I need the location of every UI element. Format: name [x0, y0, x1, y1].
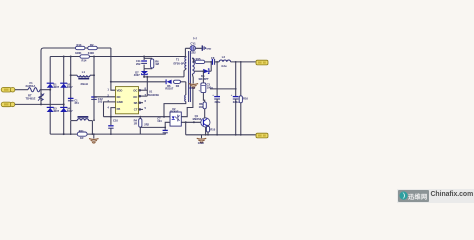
svg-text:GND: GND [198, 141, 204, 145]
wire clamp node [143, 75, 145, 77]
svg-text:2R2: 2R2 [144, 123, 149, 127]
diode D7 [141, 71, 148, 74]
svg-text:340K: 340K [88, 51, 94, 55]
resistor R10 [206, 124, 209, 127]
transformer secondary winding [192, 58, 194, 74]
resistor R4 [139, 119, 142, 128]
svg-text:T1: T1 [176, 58, 180, 62]
wire [140, 126, 165, 128]
wire bridge column B [63, 57, 65, 135]
svg-text:470u: 470u [214, 100, 220, 104]
resistor R8 [203, 102, 206, 109]
capacitor C10 [108, 125, 113, 127]
svg-text:R10: R10 [210, 128, 215, 132]
capacitor C11 [141, 60, 147, 62]
svg-text:20mH: 20mH [81, 82, 88, 86]
connector J1 (AC line input) [1, 87, 12, 92]
ground GND secondary [201, 135, 203, 138]
wire [15, 89, 28, 91]
svg-text:RS107: RS107 [165, 87, 173, 91]
wire [205, 61, 212, 63]
svg-text:4007: 4007 [53, 85, 59, 89]
capacitor C3 [201, 83, 206, 93]
transformer aux winding [185, 95, 186, 101]
wire [15, 103, 64, 105]
wire U2 left bottom [165, 122, 170, 130]
transformer T1 core [188, 51, 190, 102]
svg-text:R16: R16 [243, 96, 248, 100]
svg-text:202: 202 [136, 62, 141, 66]
wire pin6 stub [139, 102, 144, 104]
wire [111, 81, 166, 83]
diode D3 [47, 106, 54, 108]
capacitor C1 [68, 97, 74, 99]
diode D4 [60, 106, 67, 108]
wire [231, 61, 256, 63]
svg-text:L1: L1 [82, 70, 86, 74]
svg-text:220u: 220u [233, 100, 239, 104]
resistor R16 [240, 62, 242, 96]
svg-text:103: 103 [98, 100, 103, 104]
wire Q1 emitter [206, 126, 208, 135]
watermark strip [397, 189, 474, 204]
capacitor C8 [211, 59, 213, 65]
connector J2 (AC neutral input) [1, 102, 12, 107]
wire [40, 90, 42, 105]
wire CY1 drop [184, 48, 186, 56]
resistor R3 [174, 80, 181, 83]
capacitor C5 [216, 62, 218, 97]
earth ground secondary winding [189, 83, 199, 86]
svg-text:CY1: CY1 [190, 42, 196, 46]
svg-text:GND: GND [206, 48, 211, 50]
svg-text:102: 102 [199, 105, 204, 109]
diode D5 [194, 70, 203, 72]
diode D6 [167, 80, 172, 84]
wire [210, 62, 212, 71]
capacitor CY1 [185, 47, 202, 49]
svg-text:U1: U1 [149, 90, 153, 94]
svg-text:R2: R2 [90, 43, 94, 47]
svg-text:R15: R15 [196, 57, 201, 61]
wire pin5 stub [139, 108, 144, 110]
svg-text:GND: GND [117, 100, 123, 104]
svg-text:474: 474 [74, 101, 79, 105]
resistor R6 [151, 59, 154, 68]
resistor R15 [195, 60, 205, 63]
wire snubber branch [143, 57, 145, 59]
svg-text:1R: 1R [80, 136, 83, 140]
svg-text:OC: OC [133, 88, 137, 92]
svg-text:4007: 4007 [67, 85, 73, 89]
fuse F1 [28, 88, 40, 92]
svg-text:C8: C8 [211, 56, 215, 60]
wire DC bus branch [93, 57, 95, 121]
wire branch to ground rail [185, 122, 187, 135]
svg-text:PC817: PC817 [170, 109, 179, 113]
resistor R11 [77, 132, 87, 136]
wire IC pin2 [94, 96, 116, 98]
resistor R13 [75, 46, 85, 49]
wire U2 right top feedback [181, 88, 193, 117]
wire OC pins [139, 89, 148, 91]
wire feedback tap [210, 88, 236, 90]
wire ground rail [104, 116, 171, 118]
svg-text:MB4S3: MB4S3 [193, 117, 202, 121]
wire pin4 [111, 108, 116, 125]
svg-text:340K: 340K [75, 51, 81, 55]
svg-text:222: 222 [191, 50, 196, 54]
capacitor C12 [91, 96, 97, 98]
wire pin3 to ground rail [104, 102, 116, 117]
svg-text:R13: R13 [77, 43, 82, 47]
svg-text:1R: 1R [134, 121, 137, 125]
wire U2 right bottom [181, 121, 203, 123]
resistor R14 [80, 55, 90, 58]
svg-text:R14: R14 [82, 59, 87, 63]
svg-text:4007: 4007 [134, 73, 140, 77]
wire Q1 collector [204, 109, 206, 119]
wire VDD feed [111, 48, 116, 90]
svg-text:R11: R11 [79, 129, 84, 133]
svg-text:GND: GND [189, 86, 195, 90]
optocoupler U2 [170, 112, 181, 126]
svg-text:TD451E: TD451E [26, 96, 36, 100]
capacitor C7 [163, 129, 168, 131]
svg-text:(+): (+) [193, 36, 197, 40]
svg-text:FB: FB [117, 107, 121, 111]
wire secondary ground rail [186, 134, 256, 136]
svg-text:4007: 4007 [53, 109, 59, 113]
wire secondary top [193, 61, 195, 63]
wire output rail [215, 61, 220, 63]
diode D2 [60, 82, 67, 84]
svg-text:104: 104 [157, 119, 162, 123]
wire bridge column A [49, 57, 51, 135]
svg-text:4007: 4007 [67, 109, 73, 113]
transformer primary winding [185, 57, 186, 69]
connector J4 output- [256, 133, 268, 138]
wire C1 branch [70, 57, 72, 121]
svg-text:OC: OC [133, 95, 137, 99]
op-amp U1 THX203H body [116, 87, 139, 114]
svg-text:SB: SB [134, 101, 138, 105]
svg-text:NC: NC [117, 95, 121, 99]
svg-text:VDD: VDD [117, 88, 123, 92]
svg-text:THX203H: THX203H [148, 93, 160, 97]
ground symbol GND top [201, 45, 203, 50]
resistor R2 [88, 46, 98, 49]
transistor Q1 [201, 118, 210, 127]
capacitor C6 [235, 62, 237, 97]
inductor L2 [219, 60, 230, 62]
svg-text:3.3u: 3.3u [221, 64, 227, 68]
wire startup rail [41, 48, 111, 90]
svg-text:EF20-5P: EF20-5P [174, 61, 185, 65]
wire primary return rail [50, 133, 77, 135]
svg-text:2A051A: 2A051A [26, 84, 36, 88]
wire HV rail [50, 56, 186, 58]
earth ground primary [93, 134, 95, 138]
varistor RT [39, 94, 43, 101]
svg-text:C10: C10 [113, 119, 118, 123]
choke L1 top winding [71, 74, 78, 76]
connector J3 output+ [256, 60, 268, 65]
wire [40, 89, 50, 91]
svg-text:R3: R3 [176, 84, 180, 88]
svg-text:L2: L2 [222, 55, 226, 59]
choke L1 bottom winding [71, 120, 78, 122]
svg-text:CT: CT [134, 108, 138, 112]
diode D1 [47, 82, 54, 84]
